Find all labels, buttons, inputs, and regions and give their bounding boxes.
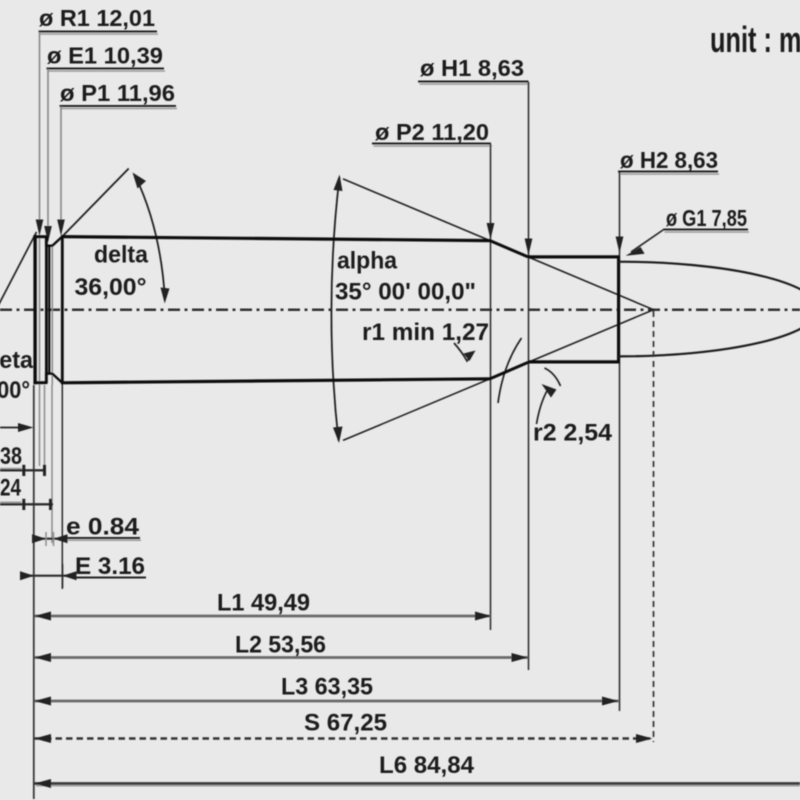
rim back extension gray	[44, 385, 46, 474]
groove floor bottom	[45, 372, 53, 374]
r2 leader curve	[537, 389, 549, 424]
svg-text:36,00°: 36,00°	[75, 274, 147, 301]
alpha cone line top right to apex	[528, 257, 654, 310]
dim L1 arrow right	[475, 612, 492, 621]
svg-text:alpha: alpha	[337, 248, 398, 275]
leader G1	[631, 230, 663, 252]
gray vertical through head groove	[51, 246, 53, 385]
svg-text:ø H1 8,63: ø H1 8,63	[420, 55, 524, 81]
alpha angle arc	[331, 177, 339, 441]
dim E arrow right	[63, 571, 77, 580]
dim 38 underline	[0, 468, 22, 470]
svg-text:ø G1 7,85: ø G1 7,85	[666, 205, 747, 231]
svg-text:35,00°: 35,00°	[0, 377, 30, 404]
leader H2 measurement line	[619, 172, 621, 711]
groove flank bottom	[52, 374, 62, 383]
head face extension line	[33, 385, 35, 799]
underline H1	[418, 81, 529, 83]
dim e arrow right	[54, 534, 68, 543]
underline H2	[618, 171, 718, 173]
svg-text:beta: beta	[0, 347, 34, 374]
r2 secondary arc	[498, 338, 522, 403]
alpha arc arrow bottom	[333, 427, 343, 444]
alpha cone line top	[343, 179, 490, 241]
svg-text:S 67,25: S 67,25	[304, 710, 387, 737]
leader P2 measurement line	[490, 144, 492, 630]
arrow P2	[487, 223, 495, 240]
dim e tick right	[53, 532, 55, 546]
axis centerline	[0, 308, 800, 311]
rim back wall top	[45, 236, 48, 247]
svg-text:ø P1 11,96: ø P1 11,96	[60, 80, 175, 106]
case body top edge	[61, 237, 490, 241]
dim 38 line	[0, 469, 46, 471]
case head face	[33, 235, 36, 384]
shoulder top edge	[490, 241, 528, 257]
groove extension gray	[51, 385, 53, 543]
svg-text:e 0.84: e 0.84	[66, 514, 140, 541]
underline E1	[47, 68, 165, 70]
dim e arrow left	[32, 534, 46, 543]
svg-text:ø E1 10,39: ø E1 10,39	[47, 43, 163, 69]
neck bottom edge	[528, 360, 620, 363]
underline P2	[372, 143, 491, 145]
dim L3 arrow right	[602, 697, 619, 706]
dim e underline	[63, 537, 140, 539]
beta leader	[0, 427, 20, 429]
leader H1 measurement line	[528, 82, 530, 670]
beta leader arrow	[18, 423, 34, 432]
dim E line	[20, 575, 74, 577]
bullet ogive top	[619, 262, 800, 309]
S apex extension dashed	[653, 311, 655, 742]
dim S arrow left	[35, 734, 52, 743]
leader P1	[60, 107, 62, 222]
rim back wall full	[45, 236, 48, 383]
underline R1	[39, 31, 158, 33]
arrow H1	[525, 239, 533, 256]
dim 24 tick right	[49, 499, 52, 510]
dim 24 line	[0, 503, 53, 505]
arrow R1	[36, 220, 44, 237]
dim S arrow right	[636, 734, 653, 743]
alpha cone line bottom right to apex	[528, 310, 654, 363]
dim 24 underline	[0, 501, 22, 503]
neck top edge	[528, 255, 620, 258]
beta bevel line	[0, 232, 37, 306]
bullet ogive bottom	[619, 309, 800, 357]
svg-text:38: 38	[0, 443, 22, 470]
dim e tick left	[45, 532, 47, 546]
dim L2 arrow right	[512, 653, 529, 662]
rim back wall bottom	[45, 373, 48, 384]
svg-text:r1 min 1,27: r1 min 1,27	[362, 319, 489, 346]
arrow H2	[616, 237, 624, 254]
svg-text:unit : mm: unit : mm	[710, 19, 800, 60]
rim leader extension gray	[39, 385, 41, 466]
svg-text:L3 63,35: L3 63,35	[281, 674, 373, 701]
svg-text:E 3.16: E 3.16	[75, 553, 145, 580]
svg-text:L6 84,84: L6 84,84	[379, 752, 475, 779]
svg-text:ø R1 12,01: ø R1 12,01	[39, 5, 155, 31]
r1 leader arrow	[464, 351, 476, 362]
dim E underline	[74, 577, 147, 579]
dim 38 tick left	[22, 465, 25, 476]
svg-text:35° 00' 00,0": 35° 00' 00,0"	[335, 279, 476, 306]
delta flank extension line	[62, 169, 129, 238]
rim top edge	[34, 235, 47, 238]
arrow P1	[57, 220, 65, 237]
dim L6 line	[35, 782, 800, 785]
arrow E1	[44, 226, 52, 243]
dim L2 line	[35, 656, 529, 659]
svg-text:L2 53,56: L2 53,56	[235, 632, 326, 659]
alpha cone line bottom	[343, 379, 490, 441]
svg-text:ø H2 8,63: ø H2 8,63	[620, 147, 718, 173]
svg-text:L1 49,49: L1 49,49	[217, 590, 310, 617]
svg-text:delta: delta	[94, 242, 149, 269]
shoulder bottom edge	[490, 362, 528, 378]
dim 38 tick right	[43, 465, 46, 476]
underline P1	[60, 105, 177, 107]
rim bottom edge	[34, 381, 47, 384]
case start extension line	[61, 384, 63, 589]
delta arc arrow top	[133, 173, 147, 189]
alpha arc arrow top	[334, 175, 343, 192]
dim L1 line	[35, 615, 492, 618]
dim E tick	[62, 564, 64, 588]
r2 radius arc mark	[545, 368, 561, 386]
dim E arrow left	[20, 571, 34, 580]
svg-text:ø P2 11,20: ø P2 11,20	[375, 119, 489, 145]
groove flank top	[52, 237, 62, 246]
dim 24 tick left	[22, 499, 25, 510]
dim L6 arrow left	[35, 779, 52, 788]
leader E1	[47, 69, 49, 229]
case body bottom edge	[61, 379, 490, 383]
underline G1	[663, 229, 748, 231]
dim L3 arrow left	[35, 697, 52, 706]
r1 leader curve	[454, 343, 472, 361]
svg-text:r2 2,54: r2 2,54	[533, 420, 613, 447]
leader R1	[39, 32, 41, 220]
delta arc arrow bottom	[161, 288, 170, 304]
P1 measurement vertical through case	[61, 237, 64, 383]
gray vertical through head R1	[39, 236, 41, 385]
groove floor top	[45, 244, 53, 246]
r2 leader arrow	[542, 384, 557, 398]
arrow G1	[626, 247, 645, 256]
dim S line dashed	[35, 737, 653, 739]
dim L3 line	[35, 700, 619, 703]
dim L1 arrow left	[35, 612, 52, 621]
dim e line	[35, 538, 64, 540]
delta angle arc	[136, 177, 166, 301]
case mouth	[617, 256, 620, 364]
dim L2 arrow left	[35, 653, 52, 662]
groove wall	[48, 246, 50, 374]
svg-text:24: 24	[0, 475, 22, 502]
